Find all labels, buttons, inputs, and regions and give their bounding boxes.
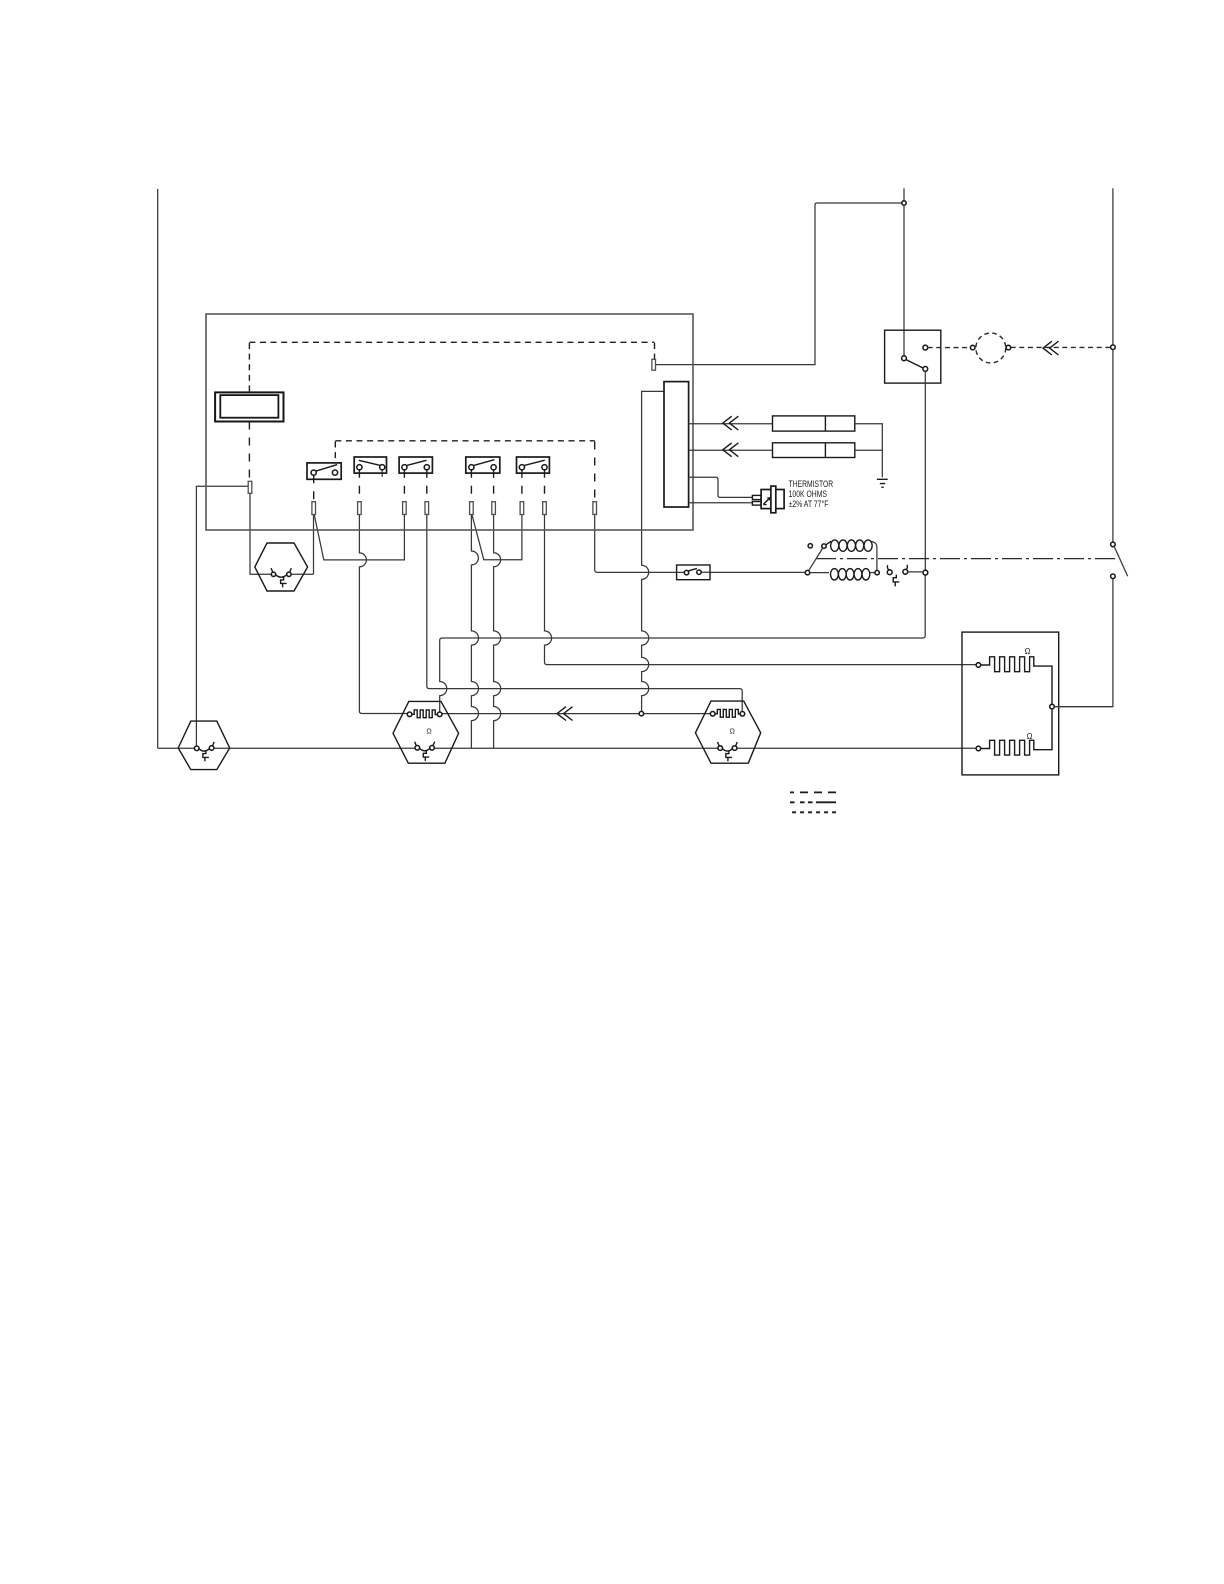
heater assembly box — [962, 632, 1059, 775]
svg-text:Ω: Ω — [1027, 732, 1033, 741]
dashed drop to display — [248, 343, 250, 392]
right door switch upper contact — [1111, 542, 1116, 547]
relay K1 pivot contact — [902, 356, 907, 361]
arrow chevrons on F2 wire — [723, 443, 739, 457]
node at solenoid output — [923, 570, 928, 575]
dashed drop to pin P10 — [654, 343, 656, 359]
pin P6 — [492, 502, 496, 515]
arrow chevrons on F1 wire — [723, 416, 739, 430]
relay K1 blade — [906, 360, 923, 369]
wire CN1 to thermistor pin 1 — [689, 477, 753, 497]
heater common terminal — [1050, 704, 1055, 709]
wire SW2 pin down to hexagon S2 left terminal — [359, 515, 407, 714]
wire fuse holder to solenoid pivot — [710, 571, 805, 573]
open contact — [808, 544, 812, 548]
display module outer — [215, 392, 283, 421]
heater relay hexagon S3 bottom right — [695, 701, 760, 763]
thermal cutout actuator — [893, 575, 899, 587]
wire cutout to node — [908, 571, 923, 573]
pin P7 — [520, 502, 524, 515]
earth ground symbol — [877, 479, 888, 487]
svg-text:Ω: Ω — [426, 726, 432, 735]
pin P10 — [652, 359, 656, 370]
wire SW4 left pin down to bottom bus — [471, 515, 478, 749]
pin P2 — [358, 502, 362, 515]
dashed display to pin P0 — [248, 422, 250, 482]
dashed harness top run — [249, 341, 654, 343]
dashed drop SW1 left to pin P1 — [313, 475, 315, 502]
relay switch SW2 — [354, 457, 386, 473]
thermal fuse hexagon S1 top — [255, 543, 308, 591]
node on hexagon wire at connector drop — [639, 711, 643, 715]
wire SW3 right pin down then right to hexagon S3 right terminal — [427, 515, 742, 712]
coil L1 upper winding — [826, 541, 831, 545]
right rail lower down to heater tap — [1054, 579, 1113, 707]
dashed drop SW3 left to pin P3 — [403, 470, 405, 502]
svg-text:Ω: Ω — [730, 727, 736, 736]
pin P0 — [248, 481, 252, 493]
relay K1 lower contact — [923, 367, 928, 372]
wire SW4 left pin diagonal to SW5 left pin — [472, 515, 522, 560]
wire CN1 to fuse F2 — [689, 449, 773, 451]
solenoid blade — [809, 548, 823, 571]
dashed motor feed from relay — [928, 347, 971, 349]
display module inner — [220, 395, 278, 418]
stub above top node — [903, 188, 905, 201]
dashed drop SW4 left to pin P5 — [470, 470, 472, 502]
relay switch SW4 — [466, 457, 500, 473]
wire heater common to right rail — [1054, 706, 1113, 708]
wire pin P1 diagonal bus to SW3 left pin — [314, 515, 404, 560]
pin P5 — [470, 502, 474, 515]
wire CN1 to thermistor pin 2 — [689, 502, 753, 504]
fuse F2 — [773, 443, 855, 458]
fuse F1 — [773, 416, 855, 431]
pin P8 — [543, 502, 547, 515]
thermistor RT1 body — [752, 486, 784, 513]
wire SW4 right pin down to bottom bus — [494, 515, 501, 749]
relay switch SW3 — [399, 457, 432, 473]
dashed drop SW2 left to pin P2 — [358, 470, 360, 502]
stub below SW2 right — [381, 470, 383, 477]
coil upper input contact — [822, 544, 826, 548]
motor terminal left — [970, 345, 975, 350]
coil L2 lower winding — [810, 572, 829, 574]
relay K1 upper contact — [923, 345, 928, 350]
dashed drop SW4 right to pin P6 — [493, 470, 495, 502]
wire fuses to ground — [855, 424, 883, 478]
svg-text:±2% AT 77°F: ±2% AT 77°F — [789, 499, 829, 509]
wire from pin P0 left then down to door switch — [196, 486, 248, 746]
pin P4 — [425, 502, 429, 515]
wire top node down into relay — [903, 205, 905, 356]
wire hexagon S2 right terminal up and right to relay node — [440, 575, 926, 712]
dashed drop SW5 right to pin P8 — [544, 470, 546, 502]
arrow chevrons on hexagon interconnect wire — [557, 707, 573, 721]
dashed harness second run — [335, 440, 594, 442]
left supply rail — [157, 189, 159, 748]
fuse holder XF1 — [677, 565, 710, 580]
motor terminal right — [1006, 345, 1011, 350]
door switch hexagon S4 bottom left — [178, 721, 230, 770]
relay K1 box — [885, 330, 941, 383]
right door switch blade — [1114, 547, 1127, 577]
node at top of relay feed — [902, 201, 906, 205]
wire SW5 right pin down then right to heater 1 — [545, 515, 977, 665]
dashed drop to SW1 — [334, 442, 336, 463]
wire CN1 to fuse F1 — [689, 423, 773, 425]
dashed drop to pin P9 — [594, 442, 596, 502]
legend line style samples — [790, 792, 836, 812]
relay switch SW1 — [307, 463, 341, 479]
dashed drop SW5 left to pin P7 — [521, 470, 523, 502]
pin P9 — [593, 502, 597, 515]
wire pin P10 right and up to top node — [655, 203, 901, 365]
heater R2 bottom element — [976, 709, 1052, 755]
wire connector bracket down to node on S2-S3 wire — [642, 391, 664, 711]
wire pin P0 down to thermal fuse hexagon — [250, 493, 314, 574]
pin P3 — [403, 502, 407, 515]
dash-dot interlock line — [816, 558, 1117, 560]
svg-text:THERMISTOR: THERMISTOR — [789, 479, 834, 489]
coil output contact — [875, 570, 879, 574]
dashed drop SW3 right to pin P4 — [426, 470, 428, 502]
right supply rail upper — [1112, 188, 1114, 542]
thermal cutout contact left — [887, 570, 892, 575]
svg-text:Ω: Ω — [1025, 647, 1031, 656]
motor M1 dashed circle — [976, 333, 1006, 363]
node on right rail at motor wire — [1111, 345, 1116, 350]
main control board outline — [206, 314, 693, 530]
heater relay hexagon S2 middle — [393, 701, 459, 763]
arrow chevrons on motor wire — [1043, 341, 1059, 355]
bottom neutral bus wire — [158, 747, 976, 749]
wire relay K1 down to solenoid node — [924, 371, 926, 570]
wire hexagon S2 right terminal to hexagon S3 left terminal — [442, 713, 710, 715]
right door switch lower contact — [1111, 574, 1116, 579]
thermal cutout contact right — [903, 569, 908, 574]
connector CN1 — [664, 382, 689, 507]
pin P1 — [312, 502, 316, 515]
svg-text:100K OHMS: 100K OHMS — [789, 489, 827, 499]
relay switch SW5 — [517, 457, 550, 473]
heater R1 top element — [976, 647, 1052, 705]
solenoid pivot contact — [805, 570, 809, 574]
solenoid L1 L2 assembly — [805, 540, 923, 587]
wire pin P9 down then right to fuse holder — [595, 515, 677, 573]
dashed motor wire to right rail — [1011, 346, 1111, 348]
